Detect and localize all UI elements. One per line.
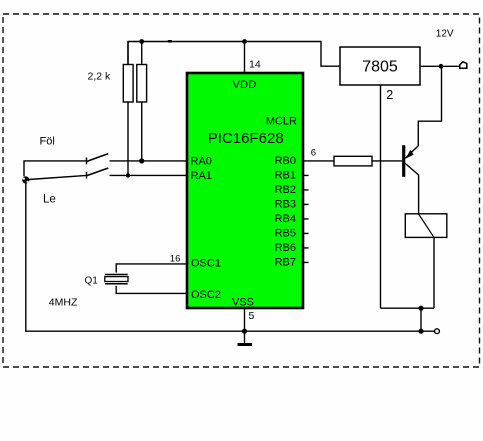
svg-text:12V: 12V bbox=[436, 28, 454, 39]
junction top rail at R2 top bbox=[139, 39, 144, 44]
svg-text:RB0: RB0 bbox=[275, 155, 296, 167]
wire RA1 right segment to chip bbox=[110, 174, 187, 176]
wire OSC1 bbox=[116, 264, 186, 273]
wire collector down to relay bbox=[418, 175, 420, 215]
svg-text:4MHZ: 4MHZ bbox=[49, 297, 78, 309]
resistor R1 2,2k left bbox=[123, 42, 133, 176]
svg-text:16: 16 bbox=[170, 254, 181, 265]
svg-text:2,2 k: 2,2 k bbox=[88, 71, 112, 83]
crystal Q1 bbox=[105, 275, 128, 284]
wire RA0 right segment to chip bbox=[110, 160, 187, 162]
svg-text:Le: Le bbox=[43, 193, 56, 205]
regulator U2 7805 bbox=[340, 47, 420, 85]
wire VSS pin 5 down bbox=[244, 308, 246, 344]
junction at 421,308 bbox=[418, 306, 423, 311]
resistor R3 base resistor bbox=[334, 156, 372, 166]
transistor Q2 PNP bbox=[404, 145, 419, 177]
svg-text:14: 14 bbox=[249, 59, 261, 71]
wire top VCC rail from resistors to 7805 input bbox=[128, 42, 340, 67]
relay K1 coil bbox=[405, 214, 447, 238]
switch S2 Le bbox=[87, 168, 109, 179]
svg-text:RB1: RB1 bbox=[275, 170, 296, 182]
node input connector left bbox=[22, 176, 29, 183]
wire 7805 output to terminal bbox=[420, 65, 460, 67]
junction small mark on top rail bbox=[168, 40, 172, 43]
svg-text:6: 6 bbox=[311, 148, 316, 159]
wire bottom link 7805pin2 to relay bbox=[381, 307, 435, 309]
dashed frame (decorative) bbox=[3, 14, 480, 367]
junction 12V node bbox=[439, 64, 444, 69]
wire emitter step up to 12V rail bbox=[418, 66, 441, 146]
wire RA0 left segment with corner down to connector bbox=[24, 161, 87, 177]
svg-text:MCLR: MCLR bbox=[266, 115, 297, 127]
IC U1 PIC16F628 bbox=[187, 73, 303, 308]
node terminal 12V bbox=[460, 62, 467, 69]
svg-text:RB4: RB4 bbox=[275, 213, 296, 225]
switch S1 Föl bbox=[87, 154, 109, 165]
svg-text:RB5: RB5 bbox=[275, 228, 296, 240]
wire relay output down bbox=[433, 237, 435, 308]
ground bbox=[238, 343, 253, 346]
wire OSC2 bbox=[116, 286, 186, 294]
junction VSS / bottom rail bbox=[242, 329, 247, 334]
svg-text:7805: 7805 bbox=[362, 59, 398, 76]
svg-text:VSS: VSS bbox=[232, 296, 254, 308]
wire bottom rail left side down from connector bbox=[26, 183, 435, 331]
svg-text:OSC2: OSC2 bbox=[191, 289, 221, 301]
svg-text:RB3: RB3 bbox=[275, 199, 296, 211]
svg-text:Q1: Q1 bbox=[85, 275, 99, 286]
svg-text:RA1: RA1 bbox=[191, 170, 212, 182]
junction top rail at VDD pin wire bbox=[242, 39, 247, 44]
svg-text:5: 5 bbox=[249, 310, 255, 322]
wire RA1 left segment from connector bbox=[29, 175, 87, 179]
node terminal bottom right bbox=[435, 329, 440, 334]
svg-text:PIC16F628: PIC16F628 bbox=[208, 130, 284, 147]
svg-text:RA0: RA0 bbox=[191, 156, 212, 168]
svg-text:RB6: RB6 bbox=[275, 242, 296, 254]
svg-text:VDD: VDD bbox=[233, 79, 257, 91]
junction RA0 / R2 bbox=[139, 158, 144, 163]
svg-text:Föl: Föl bbox=[40, 136, 55, 148]
svg-text:RB7: RB7 bbox=[275, 257, 296, 269]
wire drop to output rail bbox=[420, 308, 422, 331]
junction at 421,331 bbox=[418, 329, 423, 334]
resistor R2 2,2k right bbox=[137, 42, 147, 161]
wire resistor to base bbox=[372, 160, 402, 162]
pin stubs RB1-RB7 bbox=[304, 175, 309, 262]
svg-text:2: 2 bbox=[386, 88, 393, 102]
wire 7805 pin 2 down bbox=[380, 85, 382, 308]
wire RB0 to resistor bbox=[304, 160, 334, 162]
svg-text:OSC1: OSC1 bbox=[191, 257, 221, 269]
junction RA1 / R1 bbox=[126, 173, 130, 177]
svg-text:RB2: RB2 bbox=[275, 184, 296, 196]
wire VDD pin 14 drop bbox=[244, 42, 246, 73]
